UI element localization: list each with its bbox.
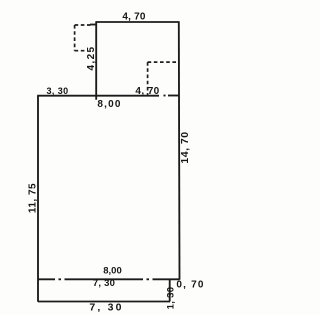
svg-text:14, 70: 14, 70	[179, 131, 191, 163]
wall: main rectangle top-left segment (3,30)	[37, 95, 96, 97]
svg-text:4, 70: 4, 70	[122, 12, 145, 23]
dimension tick at top-left corner of extension	[90, 24, 97, 26]
svg-text:8,00: 8,00	[103, 265, 122, 276]
wall: top extension left edge (4,25)	[95, 21, 97, 100]
svg-text:4, 70: 4, 70	[135, 86, 159, 97]
dashed annex top-left: top edge	[75, 24, 94, 26]
svg-text:4,25: 4,25	[86, 45, 97, 70]
wall: bottom edge dash-dot dot 2	[147, 278, 150, 280]
wall: bottom strip right edge (1,30)	[169, 279, 171, 301]
dashed annex right: left edge	[147, 62, 149, 95]
svg-text:3, 30: 3, 30	[46, 86, 68, 96]
svg-text:0, 70: 0, 70	[176, 279, 204, 290]
wall: bottom edge dash-dot dot 1	[59, 278, 62, 280]
svg-text:1, 30: 1, 30	[166, 287, 177, 310]
svg-text:11, 75: 11, 75	[28, 183, 39, 213]
wall: main rectangle left edge	[37, 96, 39, 302]
wall: bottom edge right solid part	[153, 278, 180, 280]
svg-text:8,00: 8,00	[97, 99, 121, 110]
wall: boundary tail to right edge	[168, 95, 179, 97]
svg-text:7, 30: 7, 30	[93, 278, 115, 289]
wall: boundary dash-dot tail	[164, 95, 166, 97]
wall: bottom strip bottom edge (7,30)	[38, 301, 170, 303]
svg-text:7, 30: 7, 30	[89, 302, 123, 314]
dashed annex right: top edge	[148, 61, 179, 63]
wall: bottom edge middle solid part	[65, 278, 144, 280]
wall: main rectangle bottom edge (8,00) left solid part	[38, 278, 55, 280]
wall: right edge (14,70)	[178, 21, 181, 280]
wall: boundary between top extension and main block	[96, 95, 159, 97]
dashed annex top-left: left edge	[74, 25, 76, 51]
dashed annex top-left: bottom edge	[75, 50, 88, 52]
wall: top extension top edge (4,70)	[96, 21, 178, 23]
